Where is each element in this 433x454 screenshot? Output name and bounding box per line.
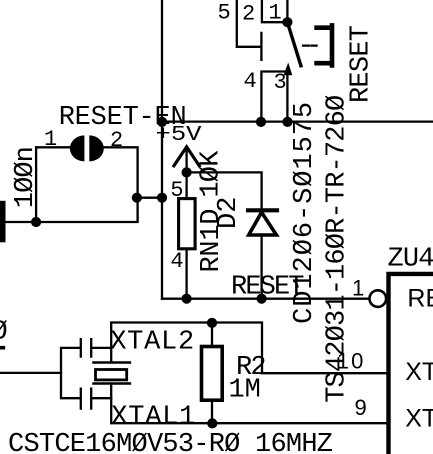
resistor RN1D body xyxy=(179,199,196,249)
pushbutton pin 2 wire xyxy=(262,0,288,22)
wire top cap to XTAL2 line xyxy=(91,347,111,349)
crystal body xyxy=(96,370,127,380)
svg-text:Ø: Ø xyxy=(0,317,8,347)
resonator top capacitor plates xyxy=(81,339,91,356)
node junction RN1D bottom on RESET xyxy=(182,294,192,304)
wire capacitor pin2 to net xyxy=(6,147,138,222)
pushbutton actuator bracket xyxy=(317,25,332,65)
node junction R2 bottom xyxy=(207,418,217,428)
resonator bottom capacitor plates xyxy=(81,389,91,409)
wire branch to diode D2 top xyxy=(187,172,262,208)
node junction at (162,121.6) xyxy=(157,117,167,127)
svg-text:2: 2 xyxy=(110,128,123,153)
wire +5V stub down to RN1D xyxy=(185,147,187,199)
svg-text:2: 2 xyxy=(242,2,255,27)
svg-text:D2: D2 xyxy=(214,197,244,229)
wire RESET net horizontal xyxy=(162,298,370,300)
svg-text:CSTCE16MØV53-RØ 16MHZ: CSTCE16MØV53-RØ 16MHZ xyxy=(8,430,333,454)
diode D2 triangle xyxy=(249,212,277,235)
ground bar symbol at left edge xyxy=(0,201,6,243)
wire R2 bottom stub xyxy=(211,400,213,423)
svg-text:1ØK: 1ØK xyxy=(196,150,226,198)
wire cap node to RESET-EN line xyxy=(138,197,162,199)
crystal electrodes xyxy=(94,363,130,384)
node junction at (162,197.7) xyxy=(157,193,167,203)
svg-text:RE: RE xyxy=(407,285,433,313)
svg-text:5: 5 xyxy=(218,1,231,26)
svg-text:4: 4 xyxy=(170,249,183,274)
pushbutton actuator dashed link xyxy=(303,44,317,46)
svg-text:XT: XT xyxy=(405,358,433,386)
capacitor C 100n left plate xyxy=(70,135,85,161)
svg-text:XTAL1: XTAL1 xyxy=(111,403,195,433)
diode D2 cathode bar xyxy=(248,208,277,212)
svg-text:1M: 1M xyxy=(229,376,261,406)
svg-text:RESET: RESET xyxy=(347,25,377,103)
wire XTAL2 net xyxy=(111,323,386,374)
wire RESET-EN vertical from top to RESET corner xyxy=(161,0,163,299)
svg-text:3: 3 xyxy=(274,70,287,95)
wire +5V switch horizontal bus y=121.6 xyxy=(162,120,433,122)
node junction ground at (36.1,222) xyxy=(31,217,41,227)
svg-text:ZU4: ZU4 xyxy=(388,244,433,274)
wire R2 top stub xyxy=(211,323,213,347)
svg-text:4: 4 xyxy=(244,69,257,94)
svg-text:XTAL2: XTAL2 xyxy=(110,327,194,357)
node junction R2 top xyxy=(207,318,217,328)
wire XTAL1 net xyxy=(111,384,386,424)
svg-text:RESET: RESET xyxy=(231,273,305,303)
resistor R2 body xyxy=(202,347,223,401)
svg-text:1: 1 xyxy=(269,1,282,26)
resonator Q1 bracket xyxy=(61,348,80,398)
wire RN1D bottom to RESET line xyxy=(185,249,187,299)
node junction pin3 on +5V bus xyxy=(282,117,292,127)
wire bottom cap to XTAL1 line xyxy=(91,397,111,399)
IC ZU4 pin 1 inversion bubble xyxy=(370,290,387,307)
pushbutton RESET pin 5 wire with case tick xyxy=(237,0,262,60)
pushbutton pin 1 wire xyxy=(286,0,288,22)
node junction at (137.6,197.7) xyxy=(132,193,142,203)
wire diode bottom to RESET line xyxy=(260,237,262,299)
svg-text:1: 1 xyxy=(352,275,364,300)
node junction pin1 (287.4,22.2) xyxy=(282,17,292,27)
svg-text:XT: XT xyxy=(405,405,433,433)
node junction at (186.6,172.4) xyxy=(182,167,192,177)
svg-text:5: 5 xyxy=(170,178,183,203)
pushbutton contact arrow xyxy=(284,63,293,76)
pushbutton lower bar pins 3-4 xyxy=(261,72,287,122)
IC ZU4 box outline xyxy=(389,274,433,454)
wire capacitor pin1 loop left xyxy=(36,147,70,222)
wire resonator input from left edge xyxy=(0,372,61,374)
partial label bar at left edge xyxy=(0,346,5,350)
svg-text:9: 9 xyxy=(355,395,367,420)
svg-text:+5V: +5V xyxy=(156,124,202,147)
node junction pin4 on +5V bus xyxy=(256,117,266,127)
node junction diode bottom on RESET xyxy=(257,294,267,304)
pushbutton lever xyxy=(287,22,301,65)
capacitor C 100n right plate xyxy=(89,135,104,161)
supply +5V symbol arrow xyxy=(174,147,199,166)
